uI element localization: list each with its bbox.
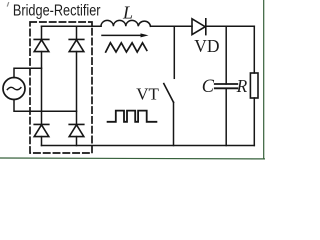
diode D2 bbox=[69, 39, 84, 51]
svg-text:VD: VD bbox=[194, 36, 219, 56]
wire dc plus rail right bbox=[206, 25, 255, 27]
diode D3 bbox=[34, 124, 49, 136]
pwm waveform bbox=[108, 111, 157, 122]
scan speck bbox=[7, 3, 8, 6]
svg-text:R: R bbox=[236, 76, 248, 96]
diode D1 bbox=[34, 39, 49, 51]
wire C branch upper bbox=[225, 26, 227, 84]
wire dc plus rail left bbox=[42, 25, 102, 27]
wire column 1 top bbox=[41, 26, 43, 39]
wire column 2 bottom bbox=[76, 137, 78, 146]
inductor L bbox=[101, 20, 151, 26]
wire column 1 middle bbox=[41, 52, 43, 125]
ripple waveform bbox=[106, 43, 147, 52]
wire column 1 bottom bbox=[41, 137, 43, 146]
wire ac bottom bbox=[14, 100, 77, 112]
svg-text:C: C bbox=[202, 76, 215, 97]
wire VT branch lower bbox=[173, 102, 175, 145]
svg-text:Bridge-Rectifier: Bridge-Rectifier bbox=[13, 2, 101, 19]
svg-text:L: L bbox=[122, 2, 133, 22]
svg-text:VT: VT bbox=[136, 85, 159, 104]
green page border bbox=[0, 0, 265, 159]
capacitor C bbox=[215, 84, 238, 88]
wire C branch lower bbox=[225, 88, 227, 145]
diode D4 bbox=[69, 124, 84, 136]
wire ac top bbox=[14, 68, 42, 77]
wire right edge lower bbox=[253, 98, 255, 146]
bridge rectifier dashed box bbox=[30, 22, 92, 153]
current arrow bbox=[102, 33, 149, 37]
wire column 2 middle bbox=[76, 52, 78, 125]
resistor R bbox=[250, 73, 258, 98]
wire VT branch upper bbox=[173, 26, 175, 78]
wire column 2 top bbox=[76, 26, 78, 39]
wire dc plus rail middle bbox=[151, 25, 193, 27]
switch VT blade bbox=[164, 84, 174, 103]
wire right edge upper bbox=[253, 26, 255, 73]
ac source G bbox=[3, 78, 25, 100]
wire dc minus rail bbox=[42, 145, 255, 147]
diode VD bbox=[192, 19, 206, 35]
